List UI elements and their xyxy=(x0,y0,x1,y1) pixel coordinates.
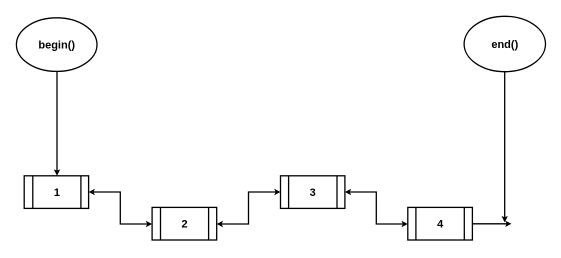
node 4 xyxy=(408,207,473,240)
svg-text:begin(): begin() xyxy=(38,40,75,52)
wire node 2 / node 3 (double arrow) xyxy=(217,189,281,227)
node 2 xyxy=(152,207,217,240)
svg-text:4: 4 xyxy=(437,219,444,231)
node 1 xyxy=(24,176,88,209)
ellipse end() xyxy=(464,16,545,71)
ellipse begin() xyxy=(16,18,97,72)
wire begin() to node 1 xyxy=(54,71,60,175)
wire node 4 next (to past-the-end point) xyxy=(472,221,511,227)
svg-text:3: 3 xyxy=(310,187,316,199)
wire end() to past-the-end point xyxy=(502,72,508,223)
node 3 xyxy=(281,176,345,209)
svg-text:end(): end() xyxy=(491,39,518,51)
svg-text:1: 1 xyxy=(54,187,60,199)
svg-text:2: 2 xyxy=(181,219,187,231)
wire node 3 / node 4 (double arrow) xyxy=(345,189,408,227)
wire node 1 / node 2 (double arrow) xyxy=(89,189,153,227)
